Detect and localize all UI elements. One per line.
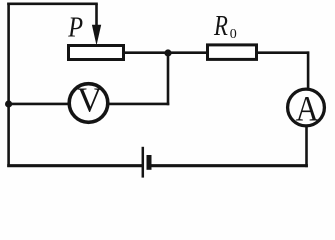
wire left vertical <box>7 3 10 167</box>
battery short thick plate (negative) <box>147 155 152 170</box>
wire junction to R0 <box>167 51 207 54</box>
resistor R0 <box>208 10 257 60</box>
svg-text:A: A <box>296 90 320 129</box>
svg-text:P: P <box>67 11 83 43</box>
wire pot right to junction <box>124 51 169 54</box>
wire voltmeter right branch horizontal <box>108 103 169 106</box>
svg-text:0: 0 <box>230 27 237 42</box>
battery long plate (positive) <box>142 147 145 178</box>
wire right vertical to ammeter top <box>307 51 310 88</box>
node junction wiper net <box>164 49 171 56</box>
svg-text:V: V <box>77 81 102 120</box>
wire bottom rail left (left corner to battery) <box>7 164 142 167</box>
wire voltmeter branch vertical up to junction <box>167 51 170 105</box>
svg-text:R: R <box>213 10 228 42</box>
voltmeter V <box>69 81 108 123</box>
node junction left rail <box>5 100 12 107</box>
wire wiper stem <box>95 4 98 27</box>
ammeter A <box>288 89 325 129</box>
wire bottom rail right (battery to right corner) <box>151 164 308 167</box>
wire voltmeter left branch <box>7 103 69 106</box>
wire ammeter bottom to bottom rail <box>305 127 308 167</box>
battery cell <box>143 147 149 178</box>
potentiometer P <box>67 11 123 60</box>
wire R0 right to corner <box>257 51 309 54</box>
wire top horizontal <box>7 2 98 5</box>
